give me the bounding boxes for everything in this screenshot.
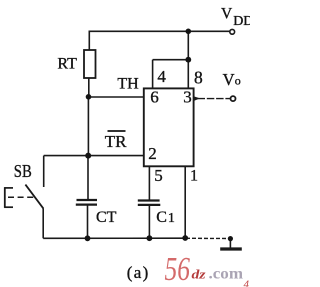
- svg-text:1: 1: [190, 168, 198, 185]
- svg-text:5: 5: [154, 166, 163, 185]
- svg-text:dz: dz: [192, 267, 207, 282]
- svg-text:TH: TH: [117, 76, 139, 93]
- svg-text:4: 4: [157, 67, 166, 86]
- svg-text:8: 8: [194, 68, 203, 88]
- svg-text:4: 4: [244, 279, 250, 287]
- svg-text:TR: TR: [105, 132, 127, 151]
- svg-text:6: 6: [150, 88, 159, 107]
- svg-text:DD: DD: [233, 14, 250, 29]
- svg-text:.com: .com: [209, 266, 244, 283]
- svg-text:C1: C1: [156, 209, 175, 226]
- svg-text:o: o: [235, 74, 241, 88]
- svg-text:CT: CT: [96, 209, 117, 226]
- svg-text:SB: SB: [14, 161, 32, 181]
- svg-text:(a): (a): [127, 263, 150, 282]
- svg-text:V: V: [221, 6, 233, 23]
- svg-text:V: V: [223, 70, 235, 89]
- svg-text:RT: RT: [57, 56, 77, 73]
- svg-text:2: 2: [148, 144, 157, 163]
- svg-text:56: 56: [165, 251, 191, 287]
- svg-text:3: 3: [183, 87, 192, 106]
